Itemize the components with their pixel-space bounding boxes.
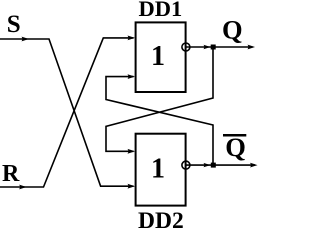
svg-text:1: 1: [151, 41, 165, 72]
svg-text:S: S: [7, 11, 21, 38]
svg-text:DD1: DD1: [139, 0, 183, 21]
svg-text:R: R: [2, 161, 20, 187]
svg-text:Q: Q: [222, 15, 243, 45]
svg-text:1: 1: [151, 153, 165, 184]
svg-text:DD2: DD2: [138, 208, 184, 228]
